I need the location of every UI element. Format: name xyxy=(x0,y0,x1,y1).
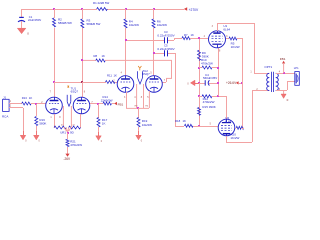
svg-text:580kB 5W: 580kB 5W xyxy=(87,22,101,26)
svg-text:0.22uF/250V: 0.22uF/250V xyxy=(157,47,174,51)
svg-text:22uF/350V: 22uF/350V xyxy=(28,18,41,22)
svg-text:-26V: -26V xyxy=(63,157,71,161)
svg-text:OPT1: OPT1 xyxy=(264,65,272,69)
svg-text:1K: 1K xyxy=(29,96,33,100)
svg-text:10k/2W: 10k/2W xyxy=(129,23,139,27)
svg-text:LP1: LP1 xyxy=(294,66,299,70)
svg-text:560uF/35V: 560uF/35V xyxy=(203,76,217,80)
svg-text:22kB/5W: 22kB/5W xyxy=(101,98,113,102)
svg-text:1K/2W: 1K/2W xyxy=(230,136,239,140)
svg-text:R1 22kB 5W: R1 22kB 5W xyxy=(93,1,109,5)
svg-text:470k/2W: 470k/2W xyxy=(70,143,82,147)
svg-text:9D: 9D xyxy=(70,130,74,134)
svg-text:0.22uF/250V: 0.22uF/250V xyxy=(157,34,174,38)
svg-text:1K: 1K xyxy=(114,73,118,77)
svg-text:1K/2W: 1K/2W xyxy=(231,45,240,49)
svg-text:J1: J1 xyxy=(3,95,7,99)
svg-text:1K: 1K xyxy=(183,119,187,123)
svg-text:580K: 580K xyxy=(39,121,46,125)
svg-text:10k/2W: 10k/2W xyxy=(142,123,152,127)
svg-text:FB1: FB1 xyxy=(280,57,286,61)
svg-text:1K: 1K xyxy=(191,33,195,37)
svg-text:1K: 1K xyxy=(102,54,106,58)
svg-text:580kB 5W: 580kB 5W xyxy=(58,21,72,25)
svg-text:R13: R13 xyxy=(22,96,28,100)
svg-text:R15 390K: R15 390K xyxy=(202,105,215,109)
svg-text:10k/2W: 10k/2W xyxy=(157,23,167,27)
svg-text:+26.6V: +26.6V xyxy=(226,81,237,85)
svg-text:6L64: 6L64 xyxy=(225,120,232,124)
svg-text:R18: R18 xyxy=(175,119,181,123)
svg-text:1K: 1K xyxy=(102,122,106,126)
svg-text:6L64: 6L64 xyxy=(223,28,230,32)
svg-text:FB1: FB1 xyxy=(118,103,124,107)
svg-text:R8: R8 xyxy=(94,54,98,58)
svg-text:470k/2W: 470k/2W xyxy=(201,61,213,65)
svg-text:UR1: UR1 xyxy=(60,130,66,134)
svg-text:6SQ7: 6SQ7 xyxy=(71,90,79,94)
svg-text:R7: R7 xyxy=(184,33,188,37)
svg-text:RCA: RCA xyxy=(2,114,8,118)
svg-text:6SQ7: 6SQ7 xyxy=(142,72,150,76)
svg-text:470k/2W: 470k/2W xyxy=(203,100,215,104)
svg-text:R11: R11 xyxy=(107,73,112,77)
svg-text:+270V: +270V xyxy=(189,8,199,12)
